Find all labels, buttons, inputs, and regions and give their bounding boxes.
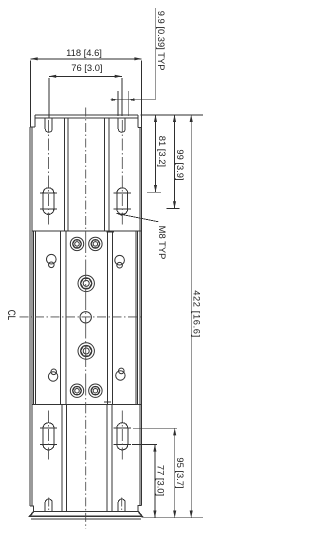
center hole at CL: [80, 312, 91, 323]
svg-text:M8 TYP: M8 TYP: [157, 226, 168, 260]
cap left step: [31, 117, 36, 127]
svg-text:76 [3.0]: 76 [3.0]: [71, 62, 102, 73]
top cap slot left: [45, 118, 52, 132]
carriage left skirt lines: [33, 231, 35, 405]
dim 422 line: [190, 115, 192, 518]
svg-text:CL: CL: [5, 310, 17, 321]
keyhole slot lower-left: [48, 369, 57, 381]
upper mounting slot right: [117, 188, 128, 215]
body right inner edge: [139, 127, 141, 505]
keyhole slot lower-right: [116, 368, 125, 380]
carriage top joint line: [107, 231, 114, 233]
big bolt upper: [78, 275, 94, 291]
carriage bottom edge: [32, 403, 141, 405]
body left inner edge: [31, 127, 33, 506]
bottom cap lower line: [31, 518, 141, 520]
lower slot right tangent ticks: [114, 427, 131, 429]
upper slot centerline left: [48, 120, 50, 225]
carriage inner lines: [60, 231, 62, 405]
upper slot right tangent ticks: [114, 192, 131, 194]
bottom cap top edge: [34, 511, 139, 513]
dim 9.9 leader vertical: [155, 8, 157, 100]
dim 81 extension bar: [147, 191, 161, 193]
dim 76 left extension: [48, 78, 50, 119]
body left outer edge: [29, 127, 31, 506]
bolt hole top-right: [89, 237, 102, 250]
lower slot centerline right: [121, 411, 123, 461]
svg-text:118 [4.6]: 118 [4.6]: [66, 47, 102, 58]
lower flange inner rail lines: [61, 404, 63, 511]
cap seam line: [35, 117, 138, 119]
carriage top edge: [32, 230, 141, 232]
lower slot centerline left: [48, 411, 50, 461]
dim 76 right extension: [121, 78, 123, 116]
svg-text:95 [3.7]: 95 [3.7]: [175, 457, 186, 488]
svg-text:77 [3.0]: 77 [3.0]: [155, 465, 166, 496]
bottom cap outline: [30, 512, 142, 517]
big bolt lower: [78, 343, 94, 359]
dim 77 extension bar: [132, 443, 157, 445]
svg-text:81 [3.2]: 81 [3.2]: [157, 136, 168, 167]
dim 76 line: [49, 75, 122, 77]
dim 9.9 horizontal line: [110, 99, 155, 101]
keyhole slot upper-right: [115, 255, 125, 268]
dim 81 line: [155, 115, 157, 192]
dim 95 line: [174, 428, 176, 518]
bottom right extension line: [142, 517, 204, 519]
cap right edge: [137, 115, 139, 128]
bottom cap slot left: [45, 499, 52, 511]
cap top edge: [35, 114, 138, 116]
top right extension line: [141, 114, 203, 116]
upper mounting slot left: [43, 188, 54, 215]
dim 95 extension bar: [133, 427, 177, 429]
bottom right step: [138, 506, 141, 512]
dim 118 left extension: [30, 60, 32, 117]
bottom cap slot right: [118, 499, 125, 511]
keyhole slot upper-left: [47, 254, 57, 267]
svg-text:422 [16.6]: 422 [16.6]: [191, 290, 202, 337]
dim 99 line: [174, 115, 176, 209]
bottom left step: [30, 506, 33, 512]
lower mounting slot left: [43, 423, 54, 450]
dim 9.9 arrows: [111, 98, 118, 101]
bolt hole bottom-right: [89, 384, 102, 397]
bolt hole bottom-left: [70, 384, 83, 397]
svg-text:99 [3.9]: 99 [3.9]: [175, 149, 186, 180]
vertical centerline: [85, 108, 87, 232]
upper flange inner rail lines: [63, 118, 65, 231]
dim 118 right extension: [141, 60, 143, 117]
cap left edge: [34, 115, 36, 127]
lower slot left tangent ticks: [40, 427, 57, 429]
lower mounting slot right: [117, 423, 128, 450]
cap right step: [138, 117, 141, 127]
bolt hole top-left: [70, 237, 83, 250]
dim 118 line: [31, 58, 142, 60]
carriage right skirt lines: [135, 231, 137, 405]
carriage bottom joint line: [104, 401, 111, 403]
horizontal CL centerline: [20, 316, 142, 318]
body right outer edge: [141, 127, 143, 505]
upper slot left tangent ticks: [40, 192, 57, 194]
svg-text:9.9 [0.39] TYP: 9.9 [0.39] TYP: [156, 11, 167, 71]
M8 leader line: [116, 213, 158, 221]
dim 99 extension bar: [167, 207, 180, 209]
dim 9.9 extension lines: [117, 91, 119, 116]
top cap slot right: [118, 118, 125, 132]
dim 77 line: [154, 444, 156, 517]
upper slot centerline right: [121, 120, 123, 225]
